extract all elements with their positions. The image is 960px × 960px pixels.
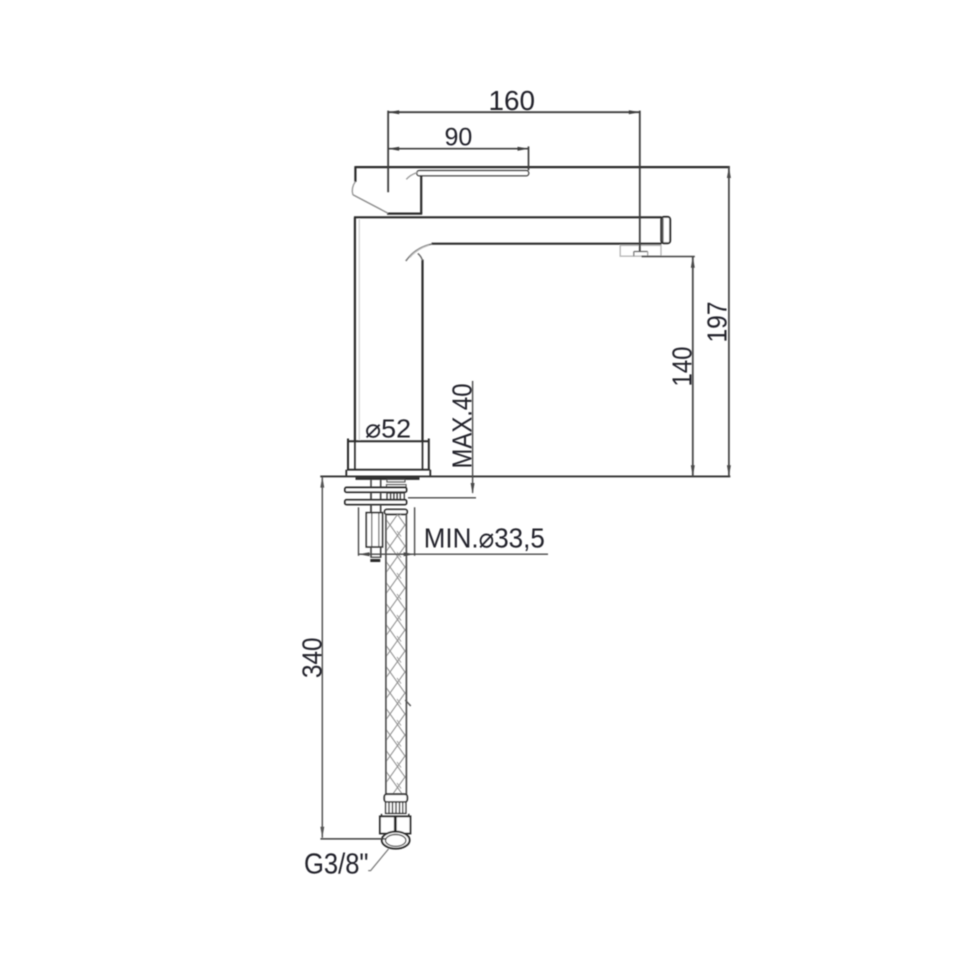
- svg-text:⌀52: ⌀52: [365, 414, 411, 444]
- svg-text:140: 140: [667, 347, 698, 387]
- svg-text:160: 160: [489, 85, 536, 116]
- svg-text:MIN.⌀33,5: MIN.⌀33,5: [424, 523, 545, 554]
- svg-text:90: 90: [445, 124, 473, 152]
- svg-text:197: 197: [702, 302, 733, 343]
- svg-text:MAX.40: MAX.40: [447, 384, 478, 469]
- svg-text:340: 340: [297, 638, 328, 679]
- svg-text:G3/8": G3/8": [304, 849, 369, 881]
